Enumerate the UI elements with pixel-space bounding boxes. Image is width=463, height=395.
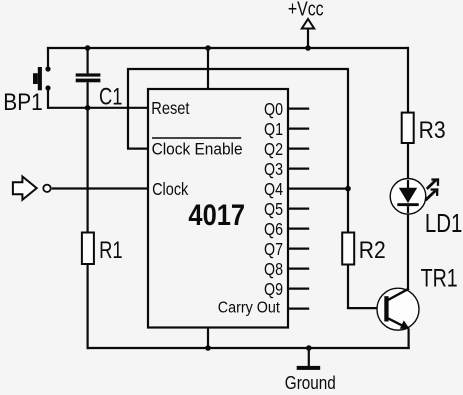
- svg-text:Q5: Q5: [264, 199, 283, 219]
- svg-text:Q2: Q2: [264, 139, 283, 159]
- svg-text:R1: R1: [99, 237, 123, 264]
- svg-text:TR1: TR1: [421, 265, 458, 293]
- svg-text:Carry Out: Carry Out: [218, 299, 281, 316]
- svg-text:R3: R3: [419, 117, 446, 144]
- svg-text:Q3: Q3: [264, 159, 283, 179]
- svg-text:Q6: Q6: [264, 219, 283, 239]
- svg-text:Q8: Q8: [264, 259, 283, 279]
- svg-text:Q7: Q7: [264, 239, 283, 259]
- svg-text:Q0: Q0: [264, 99, 283, 119]
- svg-text:Q4: Q4: [264, 179, 283, 199]
- svg-text:BP1: BP1: [3, 89, 42, 116]
- svg-text:Q9: Q9: [264, 279, 283, 299]
- svg-text:Clock Enable: Clock Enable: [152, 140, 243, 158]
- svg-text:LD1: LD1: [425, 208, 463, 238]
- svg-text:R2: R2: [359, 237, 386, 264]
- svg-text:4017: 4017: [188, 199, 245, 232]
- svg-text:Reset: Reset: [151, 98, 189, 118]
- svg-text:Ground: Ground: [285, 372, 336, 393]
- svg-text:+Vcc: +Vcc: [288, 0, 324, 20]
- svg-text:Q1: Q1: [264, 119, 283, 139]
- svg-text:Clock: Clock: [152, 179, 188, 199]
- svg-text:C1: C1: [99, 84, 122, 111]
